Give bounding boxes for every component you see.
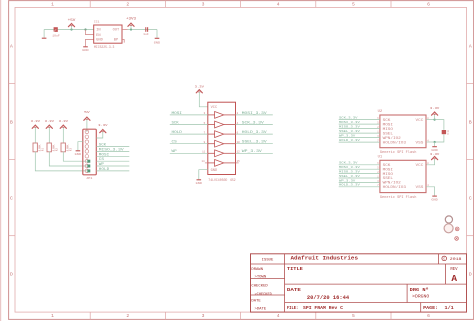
- svg-text:C: C: [469, 196, 472, 202]
- wire MISO_3.3V from JP1: [96, 150, 129, 152]
- wire R3 top: [62, 127, 64, 143]
- svg-text:2: 2: [126, 2, 129, 8]
- power 3.3V symbol above R2: [46, 125, 52, 128]
- svg-text:SCK_3.3V: SCK_3.3V: [242, 120, 264, 124]
- svg-text:6: 6: [427, 2, 430, 8]
- frame tick right A|B: [467, 83, 474, 85]
- frame tick right C|D: [467, 235, 474, 237]
- wire C3 to VSS: [435, 134, 444, 142]
- wire JP1 pin3 to ground: [78, 142, 83, 151]
- svg-text:WP_3.3V: WP_3.3V: [242, 149, 262, 153]
- frame tick top 3|4: [240, 1, 242, 8]
- svg-text:SSEL_3.3V: SSEL_3.3V: [339, 174, 360, 178]
- wire SCK_3.3V to U1: [339, 164, 380, 166]
- svg-text:VCC: VCC: [211, 105, 218, 109]
- wire MOSI_3.3V to U2: [339, 123, 380, 125]
- svg-text:5V: 5V: [84, 111, 90, 114]
- svg-text:>CHECKED: >CHECKED: [255, 292, 272, 297]
- svg-text:SSEL_3.3V: SSEL_3.3V: [339, 129, 360, 133]
- svg-text:10K: 10K: [53, 144, 56, 151]
- svg-text:HOLD_3.3V: HOLD_3.3V: [339, 183, 360, 187]
- power 3.3V symbol at IC3: [196, 90, 202, 93]
- power +5V symbol: [68, 24, 74, 27]
- svg-text:A: A: [451, 273, 457, 284]
- svg-text:U2: U2: [378, 109, 383, 113]
- svg-text:1: 1: [51, 313, 54, 319]
- ground G4: [76, 150, 81, 152]
- buffer gate A5: [208, 150, 236, 157]
- wire U2 VCC to 3.3V: [426, 119, 435, 121]
- IC3 pin 14 stub: [205, 162, 208, 164]
- svg-text:10K: 10K: [67, 144, 70, 151]
- svg-text:SCK: SCK: [172, 120, 179, 124]
- svg-text:3.3V: 3.3V: [195, 86, 205, 89]
- buffer gate A2: [208, 121, 236, 128]
- svg-text:C3: C3: [447, 130, 450, 135]
- wire HOLD_3.3V to U2: [339, 141, 380, 143]
- junction 5V at C1 side: [70, 28, 72, 30]
- svg-text:HOLD: HOLD: [172, 130, 182, 134]
- svg-text:IC1: IC1: [94, 21, 100, 24]
- resistor R3 body: [61, 143, 65, 152]
- svg-text:SCK_3.3V: SCK_3.3V: [339, 116, 358, 120]
- svg-text:GND: GND: [75, 153, 82, 156]
- svg-text:MOSI: MOSI: [99, 152, 109, 156]
- svg-text:>DATE: >DATE: [255, 306, 267, 311]
- svg-text:3.3V: 3.3V: [59, 120, 69, 123]
- wire U1 VSS to ground: [426, 187, 435, 196]
- svg-text:WPN/IO2: WPN/IO2: [383, 181, 401, 186]
- svg-text:REV: REV: [450, 268, 458, 272]
- wire R2 top: [48, 127, 50, 143]
- wire CS into IC3: [170, 143, 208, 145]
- svg-text:C: C: [10, 196, 13, 202]
- svg-text:MOSI_3.3V: MOSI_3.3V: [339, 120, 360, 124]
- svg-text:+5V: +5V: [68, 19, 77, 23]
- wire WP into IC3: [170, 152, 208, 154]
- svg-text:R3: R3: [70, 148, 73, 152]
- buffer gate A1: [208, 112, 236, 119]
- resistor R2 body: [47, 143, 51, 152]
- mounting hole H2: [455, 237, 459, 241]
- chip U2 body: [380, 115, 426, 148]
- wire HOLD into IC3: [170, 133, 208, 135]
- svg-text:3.3V: 3.3V: [45, 120, 55, 123]
- wire 3.3V stem U2: [434, 114, 436, 119]
- svg-text:GND: GND: [431, 149, 438, 152]
- svg-text:3.3V: 3.3V: [430, 107, 440, 110]
- buffer IC3 body: [208, 102, 236, 174]
- wire HOLD from JP1: [96, 170, 129, 172]
- wire GND pin of IC1: [86, 39, 94, 46]
- chip U1 body: [380, 160, 426, 192]
- svg-text:5: 5: [352, 313, 355, 319]
- wire R2 to WP pin: [49, 152, 87, 167]
- svg-text:SSEL: SSEL: [383, 177, 393, 181]
- ground G5: [197, 179, 202, 181]
- svg-text:+3V3: +3V3: [126, 17, 136, 21]
- wire MISO_3.3V to U2: [339, 128, 380, 130]
- svg-text:JP1: JP1: [86, 177, 93, 180]
- svg-text:c: c: [443, 258, 445, 262]
- wire MOSI into IC3: [170, 114, 208, 116]
- svg-text:FILE:: FILE:: [287, 305, 298, 311]
- wire WP from JP1: [96, 165, 129, 167]
- wire SCK_3.3V out of IC3: [236, 124, 273, 126]
- wire SSEL_3.3V to U2: [339, 132, 380, 134]
- svg-text:DRAWN: DRAWN: [251, 268, 263, 272]
- wire HOLD_3.3V out of IC3: [236, 133, 273, 135]
- svg-text:2018: 2018: [450, 258, 462, 262]
- frame tick bottom 2|3: [164, 312, 166, 319]
- svg-text:IN: IN: [96, 28, 100, 32]
- svg-text:>DRGNO: >DRGNO: [412, 295, 430, 300]
- svg-text:WP_3.3V: WP_3.3V: [339, 178, 355, 182]
- header JP1 pad pin9: [87, 169, 90, 172]
- svg-text:3.3V: 3.3V: [98, 124, 108, 127]
- wire JP1 pin1 to 5V: [86, 119, 88, 131]
- svg-text:MOSI_3.3V: MOSI_3.3V: [339, 165, 360, 169]
- wire JP1 pin2 to 3.3V: [96, 132, 103, 138]
- svg-text:GND: GND: [82, 49, 89, 52]
- power 3.3V symbol above R3: [60, 125, 66, 128]
- wire U2 bypass branch: [435, 120, 444, 130]
- svg-text:GND: GND: [154, 42, 161, 45]
- resistor R1 body: [33, 143, 37, 152]
- svg-text:11: 11: [202, 151, 206, 154]
- board circle large: [444, 224, 453, 233]
- wire +3V3 stem: [130, 25, 132, 29]
- svg-text:>TOWN: >TOWN: [255, 275, 267, 280]
- svg-text:Generic SPI Flash: Generic SPI Flash: [380, 195, 417, 200]
- wire WP_3.3V to U1: [339, 181, 380, 183]
- svg-text:B: B: [10, 119, 13, 125]
- svg-text:VSS: VSS: [416, 141, 424, 145]
- ground G3 stem: [156, 30, 158, 38]
- wire MOSI from JP1: [96, 155, 129, 157]
- svg-text:2: 2: [126, 313, 129, 319]
- frame tick top 1|2: [89, 1, 91, 8]
- wire SSEL_3.3V out of IC3: [236, 143, 273, 145]
- frame tick left C|D: [9, 235, 15, 237]
- svg-text:Adafruit Industries: Adafruit Industries: [291, 254, 359, 261]
- wire IC3 VCC: [199, 92, 208, 107]
- svg-text:EN: EN: [96, 33, 100, 37]
- svg-text:MISO: MISO: [383, 128, 393, 132]
- svg-text:HOLD_3.3V: HOLD_3.3V: [242, 130, 267, 134]
- svg-text:D: D: [469, 272, 472, 278]
- svg-text:SCK: SCK: [383, 164, 392, 168]
- frame tick right B|C: [467, 159, 474, 161]
- svg-text:MOSI: MOSI: [172, 111, 182, 115]
- svg-text:14: 14: [201, 160, 205, 163]
- capacitor C3 body: [442, 130, 446, 134]
- svg-text:GND: GND: [196, 182, 203, 185]
- header JP1 pad pin7: [87, 160, 90, 163]
- svg-text:15: 15: [237, 160, 241, 163]
- regulator IC1 body: [94, 25, 122, 43]
- capacitor C1 body: [54, 27, 58, 32]
- svg-text:ISSUE: ISSUE: [262, 258, 274, 262]
- buffer gate A4: [208, 140, 236, 147]
- page left edge line: [0, 0, 2, 321]
- wire U2 VSS stub: [426, 141, 435, 143]
- wire MOSI_3.3V to U1: [339, 168, 380, 170]
- svg-text:VCC: VCC: [416, 119, 424, 123]
- power +3V3 symbol: [128, 23, 134, 26]
- svg-text:WP_3.3V: WP_3.3V: [339, 134, 355, 138]
- svg-text:U1: U1: [378, 154, 383, 158]
- ground G1 stem: [43, 30, 45, 38]
- svg-text:HOLD_3.3V: HOLD_3.3V: [339, 138, 360, 142]
- ground G7: [432, 195, 437, 197]
- frame tick top 2|3: [164, 1, 166, 8]
- svg-text:DRG Nº: DRG Nº: [410, 287, 429, 293]
- svg-text:SCK: SCK: [99, 143, 106, 147]
- frame tick bottom 3|4: [240, 312, 242, 319]
- svg-text:A: A: [469, 43, 472, 49]
- wire SCK_3.3V to U2: [339, 119, 380, 121]
- wire 3.3V net from OUT: [128, 29, 158, 31]
- svg-text:74LVC4050D: 74LVC4050D: [208, 178, 227, 182]
- wire HOLD_3.3V to U1: [339, 186, 380, 188]
- wire IN-EN tie: [86, 30, 94, 35]
- IC1 OUT pin stub: [122, 29, 128, 31]
- svg-text:VSS: VSS: [416, 186, 424, 190]
- junction 5V at IC1: [84, 28, 86, 30]
- wire U1 VCC: [426, 159, 435, 165]
- svg-text:MOSI: MOSI: [383, 168, 393, 172]
- svg-text:DATE: DATE: [251, 299, 261, 303]
- wire MOSI_3.3V out of IC3: [236, 114, 273, 116]
- power 3.3V symbol U1: [432, 157, 438, 160]
- svg-text:SPI FRAM Rev C: SPI FRAM Rev C: [303, 305, 343, 311]
- svg-text:OUT: OUT: [113, 28, 120, 32]
- svg-text:3: 3: [202, 313, 205, 319]
- svg-text:WPN/IO2: WPN/IO2: [383, 136, 401, 141]
- frame tick top 5|6: [390, 1, 392, 8]
- svg-text:3.3V: 3.3V: [430, 153, 440, 156]
- wire 5V net horizontal: [44, 29, 94, 31]
- header JP1 pad pin8: [87, 165, 90, 168]
- svg-text:DATE: DATE: [287, 287, 301, 293]
- power 3.3V symbol U2: [432, 112, 438, 115]
- svg-text:6: 6: [427, 313, 430, 319]
- svg-text:4: 4: [277, 2, 280, 8]
- svg-text:R2: R2: [56, 148, 59, 152]
- capacitor C2 plates: [146, 27, 148, 32]
- svg-text:MISO_3.3V: MISO_3.3V: [339, 170, 360, 174]
- wire CS from JP1: [96, 160, 129, 162]
- IC1 BP pin stub: [122, 40, 124, 43]
- ground G2: [83, 46, 88, 48]
- frame tick top 4|5: [315, 1, 317, 8]
- svg-text:MISO_3.3V: MISO_3.3V: [339, 125, 360, 129]
- svg-text:R1: R1: [42, 148, 45, 152]
- wire SCK into IC3: [170, 124, 208, 126]
- svg-text:MIC5225-3.3: MIC5225-3.3: [94, 45, 114, 49]
- svg-text:BP: BP: [114, 38, 118, 42]
- svg-text:Generic SPI Flash: Generic SPI Flash: [380, 150, 417, 155]
- svg-text:1/1: 1/1: [445, 305, 455, 311]
- junction U2 VCC: [434, 119, 436, 121]
- svg-text:SCK_3.3V: SCK_3.3V: [339, 161, 358, 165]
- ground G6: [432, 146, 437, 148]
- svg-text:HOLDN/IO3: HOLDN/IO3: [383, 140, 406, 145]
- frame tick bottom 4|5: [315, 312, 317, 319]
- wire R1 top: [34, 127, 36, 143]
- svg-text:10uF: 10uF: [52, 34, 60, 37]
- header JP1 body: [83, 129, 97, 175]
- frame tick left B|C: [9, 159, 15, 161]
- frame tick bottom 1|2: [89, 312, 91, 319]
- svg-text:PAGE:: PAGE:: [423, 305, 438, 311]
- svg-text:WP: WP: [172, 149, 177, 153]
- svg-text:GND: GND: [96, 38, 103, 42]
- svg-text:HOLD: HOLD: [99, 167, 109, 171]
- buffer gate A3: [208, 131, 236, 138]
- wire MISO_3.3V to U1: [339, 173, 380, 175]
- junction U2 VSS: [434, 141, 436, 143]
- svg-text:SSEL_3.3V: SSEL_3.3V: [242, 140, 267, 144]
- IC3 pin 15 stub: [236, 162, 239, 164]
- svg-text:VCC: VCC: [416, 164, 424, 168]
- svg-text:10K: 10K: [39, 144, 42, 151]
- svg-text:20/7/20 16:44: 20/7/20 16:44: [307, 295, 349, 301]
- title block copyright circle: [442, 256, 447, 261]
- U2 pin numbers: [377, 117, 429, 143]
- U1 pin numbers: [377, 162, 429, 187]
- wire U2 VSS to ground: [434, 142, 436, 146]
- svg-text:3: 3: [202, 2, 205, 8]
- svg-text:1uF: 1uF: [143, 33, 149, 36]
- svg-text:652: 652: [230, 178, 235, 182]
- wire IC3 GND: [199, 170, 208, 180]
- svg-text:WP: WP: [99, 162, 104, 166]
- title block frame: [251, 254, 467, 312]
- wire SSEL_3.3V to U1: [339, 177, 380, 179]
- wire R3 to CS pin: [63, 152, 87, 162]
- wire R1 to HOLD pin: [35, 152, 87, 171]
- frame tick left A|B: [9, 83, 15, 85]
- frame tick bottom 5|6: [390, 312, 392, 319]
- svg-text:A: A: [10, 43, 13, 49]
- power 3.3V symbol above R1: [32, 125, 38, 128]
- svg-text:CHECKED: CHECKED: [251, 285, 268, 289]
- header JP1 pins: [85, 130, 89, 173]
- power 5V symbol above JP1: [84, 117, 90, 120]
- wire +5V stem: [71, 26, 73, 30]
- ground G1: [42, 37, 47, 39]
- svg-text:B: B: [469, 119, 472, 125]
- svg-text:TITLE: TITLE: [287, 266, 303, 272]
- svg-text:GND: GND: [431, 199, 438, 202]
- svg-text:MOSI: MOSI: [383, 123, 393, 127]
- board circle small: [445, 216, 452, 223]
- svg-text:CS: CS: [99, 157, 104, 161]
- svg-text:5: 5: [352, 2, 355, 8]
- svg-text:SSEL: SSEL: [383, 132, 393, 136]
- svg-text:MISO: MISO: [383, 173, 393, 177]
- junction 3.3V at OUT: [130, 28, 132, 30]
- svg-text:GND: GND: [211, 168, 218, 172]
- ground G3: [155, 37, 160, 39]
- wire WP_3.3V out of IC3: [236, 152, 273, 154]
- mounting hole H1: [455, 227, 459, 231]
- buffer gate A6: [208, 160, 236, 167]
- svg-text:D: D: [10, 272, 13, 278]
- svg-text:4: 4: [277, 313, 280, 319]
- svg-text:HOLDN/IO3: HOLDN/IO3: [383, 185, 406, 190]
- svg-text:MISO_3.3V: MISO_3.3V: [99, 147, 124, 151]
- svg-text:MOSI_3.3V: MOSI_3.3V: [242, 111, 267, 115]
- power 3.3V symbol right of JP1: [100, 130, 106, 133]
- wire WP_3.3V to U2: [339, 137, 380, 139]
- svg-text:3.3V: 3.3V: [31, 120, 41, 123]
- svg-text:1: 1: [51, 2, 54, 8]
- svg-text:CS: CS: [172, 140, 177, 144]
- wire SCK from JP1: [96, 146, 129, 148]
- svg-text:SCK: SCK: [383, 119, 392, 123]
